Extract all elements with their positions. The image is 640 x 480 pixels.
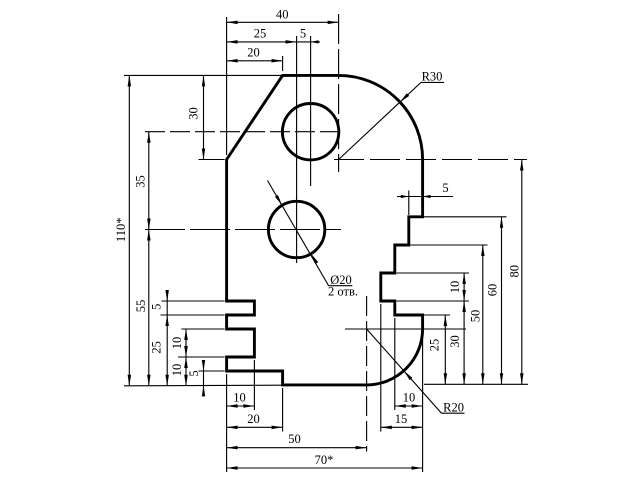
centerline lower hole vertical bbox=[296, 36, 298, 263]
part outline (plate 70x110, R30 top-right, R20 bottom-right, left slots) bbox=[227, 75, 423, 385]
svg-text:10: 10 bbox=[170, 337, 184, 350]
dimension 30 right bbox=[448, 301, 466, 384]
svg-text:60: 60 bbox=[485, 284, 499, 297]
ext line x=0 bottom bbox=[226, 374, 228, 472]
ext line x=65 step bbox=[408, 191, 410, 216]
dimension 50 right bbox=[468, 245, 484, 384]
ext line y=110 left bbox=[124, 74, 283, 76]
svg-text:50: 50 bbox=[468, 310, 482, 323]
svg-text:110*: 110* bbox=[114, 218, 128, 243]
svg-text:25: 25 bbox=[254, 27, 267, 41]
dimension 5 bottom step left bbox=[187, 360, 205, 396]
svg-text:R30: R30 bbox=[422, 69, 443, 83]
dimension 70* bottom bbox=[227, 453, 423, 470]
dimension 60 right bbox=[485, 217, 503, 384]
dimension 80 right bbox=[508, 160, 524, 385]
svg-text:35: 35 bbox=[133, 175, 147, 188]
dimension 5 slot1 left bbox=[149, 290, 169, 326]
dimension 25 right bbox=[427, 315, 447, 384]
ext line x=70 bottom bbox=[422, 332, 424, 472]
leader R30 bbox=[339, 69, 445, 159]
svg-text:70*: 70* bbox=[315, 453, 334, 467]
ext line y=30 right bbox=[397, 300, 470, 302]
svg-text:R20: R20 bbox=[443, 401, 464, 415]
ext line x=20 top bbox=[282, 56, 284, 71]
dimension 55 left bbox=[134, 230, 151, 386]
svg-text:5: 5 bbox=[149, 304, 163, 310]
ext line y=25 right bbox=[424, 314, 450, 316]
ext line y=25 left bbox=[161, 314, 225, 316]
svg-text:20: 20 bbox=[247, 412, 260, 426]
ext line y=20 left bbox=[181, 328, 224, 330]
dimension 40 top bbox=[227, 7, 339, 24]
diameter Ø20 leader bbox=[268, 181, 358, 299]
dimension 15 bottom right bbox=[381, 412, 423, 429]
svg-text:10: 10 bbox=[233, 391, 246, 405]
dimension 10 right bbox=[448, 273, 466, 301]
centerline lower hole horizontal bbox=[145, 229, 341, 231]
leader R20 bbox=[367, 329, 465, 415]
dimension 10 slot2 left bbox=[170, 329, 188, 357]
ext line y=60 right bbox=[424, 216, 507, 218]
hole Ø20 upper bbox=[282, 104, 338, 160]
dimension 10 bottom right bbox=[395, 391, 423, 408]
ext line x=20 bottom bbox=[282, 388, 284, 432]
ext line y=5 left bbox=[199, 370, 225, 372]
svg-text:40: 40 bbox=[276, 7, 289, 21]
dimension 5 right step bbox=[397, 181, 453, 198]
dimension 25 left bbox=[149, 315, 169, 386]
svg-text:10: 10 bbox=[170, 364, 184, 377]
svg-text:55: 55 bbox=[134, 300, 148, 313]
centerline R20 vertical bbox=[366, 296, 368, 452]
dimension 10 bottom left bbox=[227, 391, 255, 408]
ext line x=0 top bbox=[226, 17, 228, 155]
ext line x=60 bottom bbox=[394, 318, 396, 410]
svg-text:30: 30 bbox=[448, 335, 462, 348]
dimension 25 top bbox=[227, 27, 297, 44]
dimension 50 bottom bbox=[227, 432, 367, 449]
svg-text:25: 25 bbox=[427, 339, 441, 352]
ext line y=50 right bbox=[411, 244, 488, 246]
dimension 20 top bbox=[227, 46, 283, 63]
svg-text:5: 5 bbox=[300, 27, 306, 41]
svg-text:20: 20 bbox=[247, 46, 260, 60]
dimension 30 left bbox=[186, 75, 205, 159]
ext line x=55 bottom bbox=[380, 304, 382, 432]
ext line y=30 left bbox=[162, 300, 225, 302]
ext line y=40 right bbox=[397, 272, 470, 274]
ext line y=0 left bbox=[124, 384, 283, 387]
svg-text:15: 15 bbox=[395, 412, 408, 426]
svg-text:50: 50 bbox=[288, 432, 301, 446]
centerline upper hole vertical bbox=[310, 36, 312, 186]
svg-text:10: 10 bbox=[448, 281, 462, 294]
dimension 110* left bbox=[114, 75, 131, 385]
svg-text:80: 80 bbox=[508, 265, 522, 278]
ext line y=80 left bbox=[199, 159, 225, 161]
centerline R20 horizontal bbox=[345, 328, 466, 330]
dimension 10 lower left bbox=[170, 357, 188, 386]
dimension 35 left bbox=[133, 132, 150, 230]
svg-text:25: 25 bbox=[149, 341, 163, 354]
svg-text:5: 5 bbox=[187, 370, 201, 376]
centerline R30 vertical bbox=[338, 14, 340, 172]
dimension 5 top bbox=[297, 27, 320, 44]
centerline upper hole horizontal bbox=[145, 131, 343, 133]
ext line x=10 bottom bbox=[253, 360, 255, 410]
ext line y=0 right bbox=[424, 383, 528, 385]
svg-text:5: 5 bbox=[442, 181, 448, 195]
ext line y=10 left bbox=[178, 356, 225, 358]
centerline R30 horizontal / ext 80 bbox=[334, 159, 527, 161]
hole Ø20 lower bbox=[268, 201, 324, 257]
svg-text:30: 30 bbox=[186, 107, 200, 120]
dimension 20 bottom bbox=[227, 412, 283, 429]
svg-text:10: 10 bbox=[403, 391, 416, 405]
svg-text:2 отв.: 2 отв. bbox=[328, 285, 358, 299]
